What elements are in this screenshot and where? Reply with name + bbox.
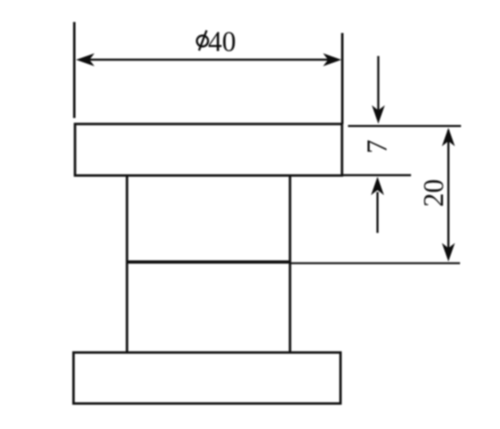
dimension line 20: [447, 130, 449, 258]
right extension line: [341, 33, 343, 124]
dimension 7 upper leg: [377, 56, 379, 110]
top flange outline: [75, 124, 342, 176]
label phi40: phi symbol bowl: [197, 36, 208, 47]
left extension line: [73, 22, 75, 118]
stem right edge: [289, 176, 291, 353]
arrowhead 20 bottom (points down): [442, 243, 455, 262]
label phi40: phi slash stroke: [199, 30, 207, 50]
bottom flange outline: [74, 353, 341, 404]
stem middle step line: [126, 260, 290, 263]
arrowhead phi40 right: [323, 53, 342, 66]
extension line bottom right (step level): [290, 262, 460, 264]
extension line flange bottom level: [342, 174, 411, 176]
extension line top right (flange top level): [348, 125, 461, 127]
stem left edge: [126, 176, 128, 353]
arrowhead phi40 left: [76, 53, 95, 66]
dimension line phi40: [79, 59, 338, 61]
svg-text:40: 40: [208, 27, 236, 58]
dimension 7 lower leg: [376, 192, 378, 233]
svg-text:20: 20: [419, 179, 450, 207]
arrowhead 7 upper (points down): [372, 105, 385, 124]
arrowhead 20 top (points up): [442, 128, 455, 147]
arrowhead 7 lower (points up): [371, 177, 384, 196]
svg-text:7: 7: [363, 140, 394, 154]
